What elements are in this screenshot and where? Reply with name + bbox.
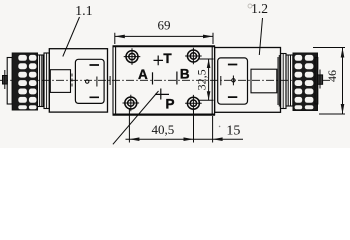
- svg-text:46: 46: [325, 70, 339, 82]
- svg-text:32,5: 32,5: [194, 69, 208, 90]
- svg-text:15: 15: [226, 123, 240, 138]
- svg-text:T: T: [163, 51, 172, 66]
- svg-text:1.1: 1.1: [75, 4, 93, 19]
- svg-text:A: A: [138, 67, 148, 82]
- svg-text:1.2: 1.2: [251, 1, 268, 16]
- svg-text:B: B: [180, 66, 190, 81]
- svg-text:P: P: [165, 96, 174, 111]
- svg-text:40,5: 40,5: [152, 122, 175, 137]
- svg-text:69: 69: [158, 18, 171, 33]
